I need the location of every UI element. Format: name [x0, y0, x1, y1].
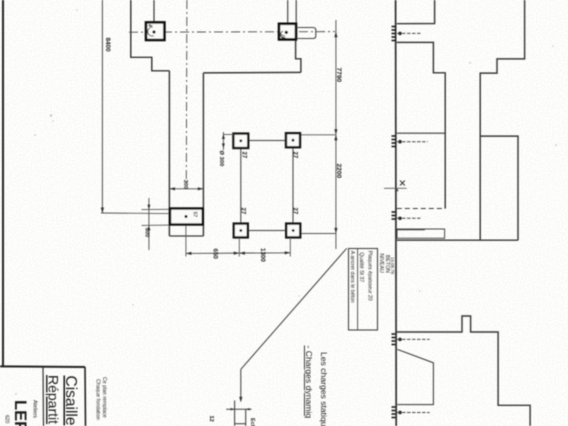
- anchor bolt row y=412.5: [392, 407, 396, 418]
- arrowheads: [334, 32, 337, 38]
- note box (Plaques epaisseur): [349, 249, 378, 331]
- svg-text:7790: 7790: [335, 68, 342, 83]
- left channel wall right: [202, 73, 204, 236]
- section C profile with lug: [397, 316, 530, 426]
- title block divider: [42, 367, 45, 426]
- left channel wall left: [168, 71, 170, 236]
- extension line at y=213: [101, 212, 170, 215]
- svg-text:57: 57: [191, 212, 197, 218]
- anchor plate TL: [233, 134, 248, 148]
- svg-text:Ø 300: Ø 300: [218, 151, 224, 167]
- svg-text:27: 27: [292, 208, 298, 215]
- section A top profile: [397, 0, 435, 24]
- dimension Ø300 at TL plate: [222, 132, 224, 150]
- svg-text:Qualité St 37: Qualité St 37: [358, 252, 364, 282]
- section B inner step: [480, 136, 518, 240]
- bolt leader into S1: [153, 0, 155, 31]
- anchor bolt row y=339.4: [392, 334, 396, 345]
- small level mark y=188: [384, 187, 407, 189]
- svg-text:500: 500: [143, 228, 149, 237]
- dimension 650 / 1300 (horizontal y=253): [186, 252, 290, 255]
- svg-text:650: 650: [212, 249, 219, 260]
- svg-text:27: 27: [241, 152, 247, 159]
- anchor plate BL: [234, 224, 248, 238]
- ledge y=133: [397, 132, 445, 134]
- drawing sheet left border: [2, 0, 4, 366]
- title block top border: [0, 365, 85, 368]
- tab on S2 right: [298, 28, 316, 39]
- dimension 300 inside channel: [169, 188, 203, 190]
- anchor plate S1: [146, 22, 164, 40]
- anchor bolt row y=141.7: [392, 136, 396, 147]
- svg-text:Chaque fondation: Chaque fondation: [95, 379, 101, 420]
- svg-text:Ateliers: Ateliers: [32, 400, 38, 418]
- svg-text:Ech: Ech: [249, 418, 255, 426]
- svg-text:A ancrer dans le béton: A ancrer dans le béton: [349, 251, 355, 303]
- concrete level line: [397, 239, 518, 241]
- svg-text:16.08.78: 16.08.78: [390, 257, 395, 275]
- section main vertical (wall line): [395, 0, 398, 426]
- anchor plate S2: [279, 24, 296, 40]
- outline horizontal y=72.9: [203, 71, 301, 74]
- svg-text:27: 27: [292, 152, 298, 159]
- machine outline upper-left steps: [131, 0, 170, 71]
- svg-text:Les charges statiques: Les charges statiques: [319, 352, 329, 426]
- section C pit trapezoid: [397, 349, 433, 404]
- centreline extension from R1: [185, 225, 187, 257]
- extensions from BL/BR plates: [238, 238, 240, 257]
- anchor plate BR: [286, 224, 300, 238]
- svg-text:8400: 8400: [104, 38, 111, 53]
- svg-text:620: 620: [4, 415, 10, 424]
- cluster connecting rectangle: [241, 141, 293, 231]
- title block right border: [84, 367, 87, 426]
- svg-text:- Charges dynamiq: - Charges dynamiq: [304, 346, 314, 419]
- section B stair profile: [480, 0, 524, 240]
- channel bottom closure: [169, 235, 203, 237]
- bolt sleeve rectangle: [397, 229, 445, 238]
- anchor bolt row y=218.3: [392, 212, 396, 219]
- svg-text:Plaques épaisseur 20: Plaques épaisseur 20: [367, 251, 373, 301]
- svg-text:12: 12: [208, 416, 214, 422]
- wire pair above S2: [287, 0, 289, 39]
- svg-text:LEFORT: LEFORT: [11, 400, 29, 426]
- X mark: [400, 181, 405, 186]
- svg-text:Cisaille: Cisaille: [62, 376, 79, 426]
- centre line y=32 (dash-dot): [129, 31, 335, 34]
- svg-text:NIVEAU: NIVEAU: [378, 254, 384, 274]
- leader vertical to anchor detail: [240, 369, 242, 400]
- anchor plate TR: [286, 133, 300, 147]
- centre line x=186.5 (dash-dot vertical): [185, 0, 188, 183]
- arrowhead 8400 bottom: [101, 208, 104, 214]
- svg-text:300: 300: [182, 180, 188, 189]
- dimension line 7790/2200 (vertical x=336): [335, 20, 337, 249]
- dimension line 8400 (vertical, left): [101, 0, 103, 213]
- anchor detail at bottom centre: [226, 408, 251, 410]
- extension lines to cluster: [301, 134, 336, 136]
- svg-text:2200: 2200: [335, 164, 342, 179]
- svg-text:Répartit: Répartit: [46, 375, 62, 424]
- anchor bolt row y=33: [392, 27, 396, 41]
- svg-text:1300: 1300: [259, 248, 266, 262]
- anchor plate R1 (thick rectangle): [170, 209, 203, 225]
- svg-text:BETON: BETON: [384, 255, 390, 273]
- leader diagonal to note box: [241, 248, 347, 369]
- section A mid profile: [397, 42, 445, 208]
- dimension 500 (left of R1): [148, 198, 150, 250]
- dashed bottom y=208.5: [397, 208, 445, 210]
- svg-text:27: 27: [240, 208, 246, 215]
- outline below plate S2: [296, 40, 301, 72]
- svg-text:Ce plan remplace: Ce plan remplace: [101, 377, 107, 418]
